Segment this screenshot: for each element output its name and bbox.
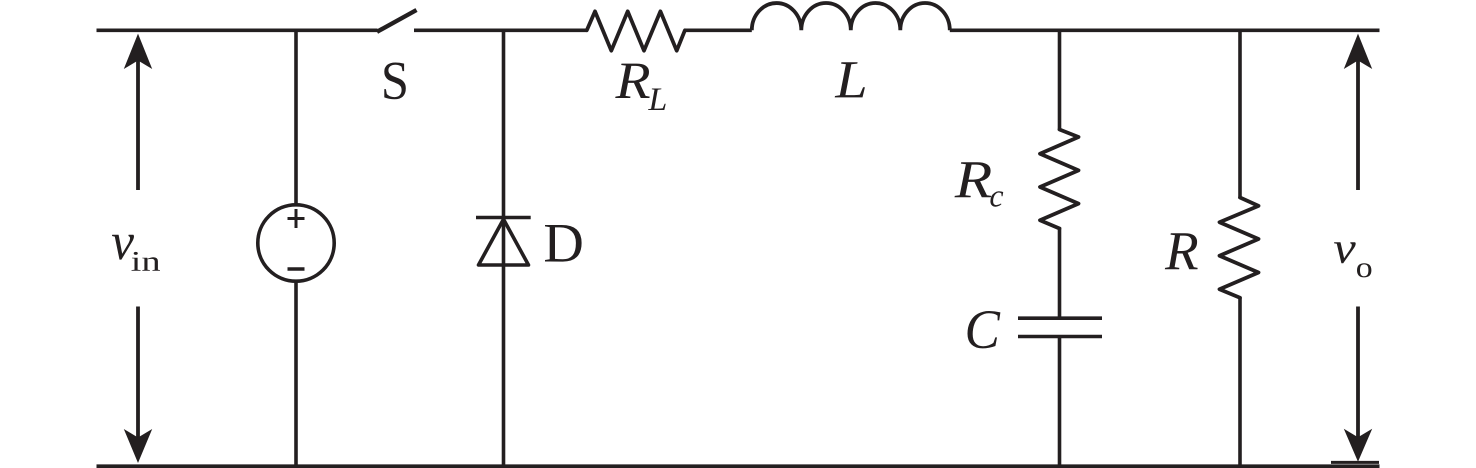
- diode D cathode bar: [476, 216, 531, 220]
- label D: [545, 225, 582, 262]
- wire: bottom rail: [97, 464, 1380, 468]
- wire: top rail to resistor R: [1238, 30, 1242, 197]
- wire: R_c to capacitor C: [1058, 229, 1062, 318]
- label L: [835, 62, 865, 97]
- wire: diode branch vertical: [502, 30, 506, 466]
- wire: top rail from L to right end: [950, 28, 1380, 32]
- label v_in main v: [112, 235, 134, 260]
- label R_c subscript c: [990, 191, 1003, 206]
- wire: top rail left segment: [97, 28, 378, 32]
- label C: [968, 311, 1001, 348]
- wire: top rail from R_L to L: [685, 28, 752, 32]
- label v_o main v: [1334, 242, 1356, 263]
- voltage source + symbol: [288, 209, 305, 228]
- voltage source - symbol: [288, 267, 305, 270]
- capacitor C top plate: [1018, 316, 1102, 320]
- diode D triangle: [479, 219, 529, 265]
- arrow v_o head down: [1344, 429, 1372, 462]
- arrow v_in head down: [124, 429, 152, 463]
- arrow v_o shaft upper segment: [1356, 52, 1360, 190]
- label S: [384, 63, 406, 100]
- switch S blade: [377, 10, 417, 32]
- resistor R_L zigzag: [587, 11, 685, 50]
- label v_in subscript in: [132, 252, 161, 271]
- wire: top rail from switch to R_L: [414, 28, 587, 32]
- wire: top rail to R_c: [1058, 30, 1062, 129]
- arrow v_in head up: [124, 34, 152, 69]
- label R_L subscript L: [648, 89, 666, 111]
- label R_L main R: [615, 64, 650, 98]
- arrow v_in shaft lower segment: [136, 307, 140, 443]
- label v_o subscript o: [1357, 263, 1371, 277]
- wire: resistor R to bottom rail: [1238, 298, 1242, 466]
- wire: top rail to voltage source: [294, 30, 298, 205]
- arrow v_in shaft upper segment: [136, 52, 140, 190]
- wire: capacitor C to bottom rail: [1058, 337, 1062, 467]
- arrow v_o head up: [1344, 34, 1372, 69]
- voltage source circle: [258, 205, 334, 281]
- wire: bottom rail stub near v_o: [1331, 461, 1379, 464]
- label R_c main R: [955, 162, 992, 197]
- wire: voltage source to bottom rail: [294, 281, 298, 466]
- inductor L humps: [752, 3, 950, 30]
- resistor R_c zigzag: [1040, 130, 1079, 229]
- arrow v_o shaft lower segment: [1356, 307, 1360, 443]
- label R: [1165, 233, 1198, 269]
- resistor R zigzag: [1220, 198, 1259, 298]
- capacitor C bottom plate: [1018, 335, 1102, 339]
